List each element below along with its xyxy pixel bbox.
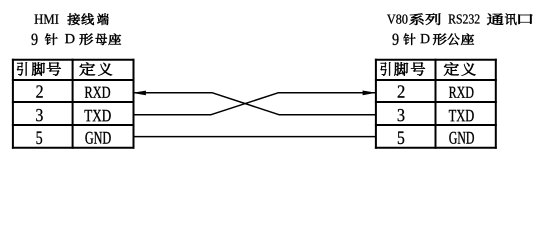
label: xing (shape) — [79, 34, 92, 45]
left TXD — [84, 110, 110, 121]
right header: jiao — [394, 62, 408, 76]
arrowhead into HMI RXD (points left) — [132, 91, 146, 96]
left RXD — [85, 87, 110, 98]
label: tong (comm 1) — [487, 13, 503, 25]
right header: hao — [411, 62, 425, 76]
label: RS232 — [448, 14, 479, 23]
label: duan (terminal) — [97, 13, 108, 25]
label: D (right) — [420, 34, 429, 43]
label: zhen (pin) — [45, 33, 58, 45]
label: zuo (right) — [461, 33, 474, 45]
right TXD — [449, 110, 474, 121]
right pin 2 — [398, 85, 405, 97]
left header: yin — [17, 62, 27, 76]
right header: yi — [462, 63, 476, 76]
label: 9 — [32, 34, 38, 45]
wire: V80 TXD(3) to HMI RXD(2), crossover upper-left to lower-right — [134, 93, 376, 115]
left pin 3 — [36, 109, 42, 121]
right pin 5 — [398, 131, 404, 144]
label: xi (series 1) — [410, 13, 424, 25]
wire: HMI TXD(3) to V80 RXD(2), crossover lower-left to upper-right — [134, 93, 376, 115]
right header: yin — [380, 62, 390, 76]
label: kou (port) — [519, 14, 533, 24]
left pin 5 — [36, 131, 42, 144]
left header: yi — [98, 63, 112, 76]
label: lie (series 2) — [426, 13, 441, 25]
right table grid (V80 side) — [375, 59, 497, 149]
left GND — [85, 132, 110, 144]
label: xun (comm 2) — [505, 13, 517, 25]
left header: ding — [80, 62, 96, 75]
left header: hao — [47, 62, 61, 76]
label: xing (right) — [433, 34, 446, 45]
label: mu (female) — [95, 34, 106, 45]
label: D — [65, 34, 74, 43]
label: zhen (right) — [404, 33, 416, 45]
arrowhead into V80 RXD (points right) — [363, 91, 377, 96]
left header: jiao — [32, 62, 45, 76]
label: gong (male) — [447, 34, 459, 46]
right header: ding — [444, 62, 459, 75]
wire: GND(5) to GND(5) straight — [134, 136, 376, 138]
right pin 3 — [398, 109, 405, 121]
label: jie (connect) — [68, 13, 80, 25]
right RXD — [449, 87, 473, 98]
label: zuo (socket) — [109, 33, 122, 45]
left pin 2 — [36, 85, 42, 97]
label: 9 (right) — [393, 34, 399, 45]
right GND — [449, 132, 474, 144]
label: V80 — [387, 14, 408, 23]
label: xian (wire) — [82, 13, 95, 25]
left table grid (HMI side) — [12, 59, 135, 149]
label: HMI — [34, 15, 58, 24]
